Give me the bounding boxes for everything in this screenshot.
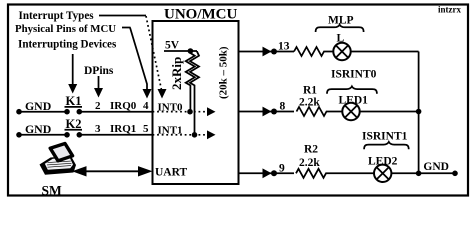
svg-text:9: 9 [279,162,285,174]
svg-text:GND: GND [25,99,51,113]
svg-text:Interrupt Types: Interrupt Types [19,10,95,22]
svg-text:GND: GND [25,122,51,136]
svg-text:4: 4 [143,100,149,112]
svg-text:2xRip: 2xRip [169,57,184,90]
svg-text:INT0: INT0 [158,102,184,114]
svg-text:13: 13 [278,41,290,53]
svg-text:8: 8 [280,101,286,113]
svg-text:GND: GND [423,161,449,173]
svg-text:IRQ1: IRQ1 [110,123,136,135]
svg-text:MLP: MLP [328,15,354,27]
svg-text:5: 5 [143,123,149,135]
svg-text:(20k – 50k): (20k – 50k) [218,46,230,99]
svg-text:LED1: LED1 [339,94,369,106]
svg-text:SM: SM [42,183,63,198]
svg-text:IRQ0: IRQ0 [110,100,137,112]
svg-text:Interrupting Devices: Interrupting Devices [18,39,117,51]
svg-text:INT1: INT1 [158,125,183,137]
svg-text:Physical Pins of MCU: Physical Pins of MCU [15,23,116,35]
svg-text:ISRINT0: ISRINT0 [331,69,377,81]
svg-text:2.2k: 2.2k [299,96,320,108]
svg-text:L: L [337,33,345,45]
svg-text:ISRINT1: ISRINT1 [362,131,408,143]
svg-text:5V: 5V [165,40,180,52]
svg-text:UNO/MCU: UNO/MCU [164,7,237,23]
svg-text:R1: R1 [303,85,317,97]
svg-text:UART: UART [155,167,188,179]
svg-text:intzrx: intzrx [438,5,461,15]
svg-text:R2: R2 [304,144,318,156]
svg-text:2.2k: 2.2k [299,157,320,169]
svg-text:LED2: LED2 [368,155,398,167]
svg-text:2: 2 [95,100,101,112]
svg-text:K1: K1 [66,94,82,108]
svg-text:DPins: DPins [84,65,114,77]
svg-text:3: 3 [95,123,101,135]
svg-text:K2: K2 [66,117,82,131]
